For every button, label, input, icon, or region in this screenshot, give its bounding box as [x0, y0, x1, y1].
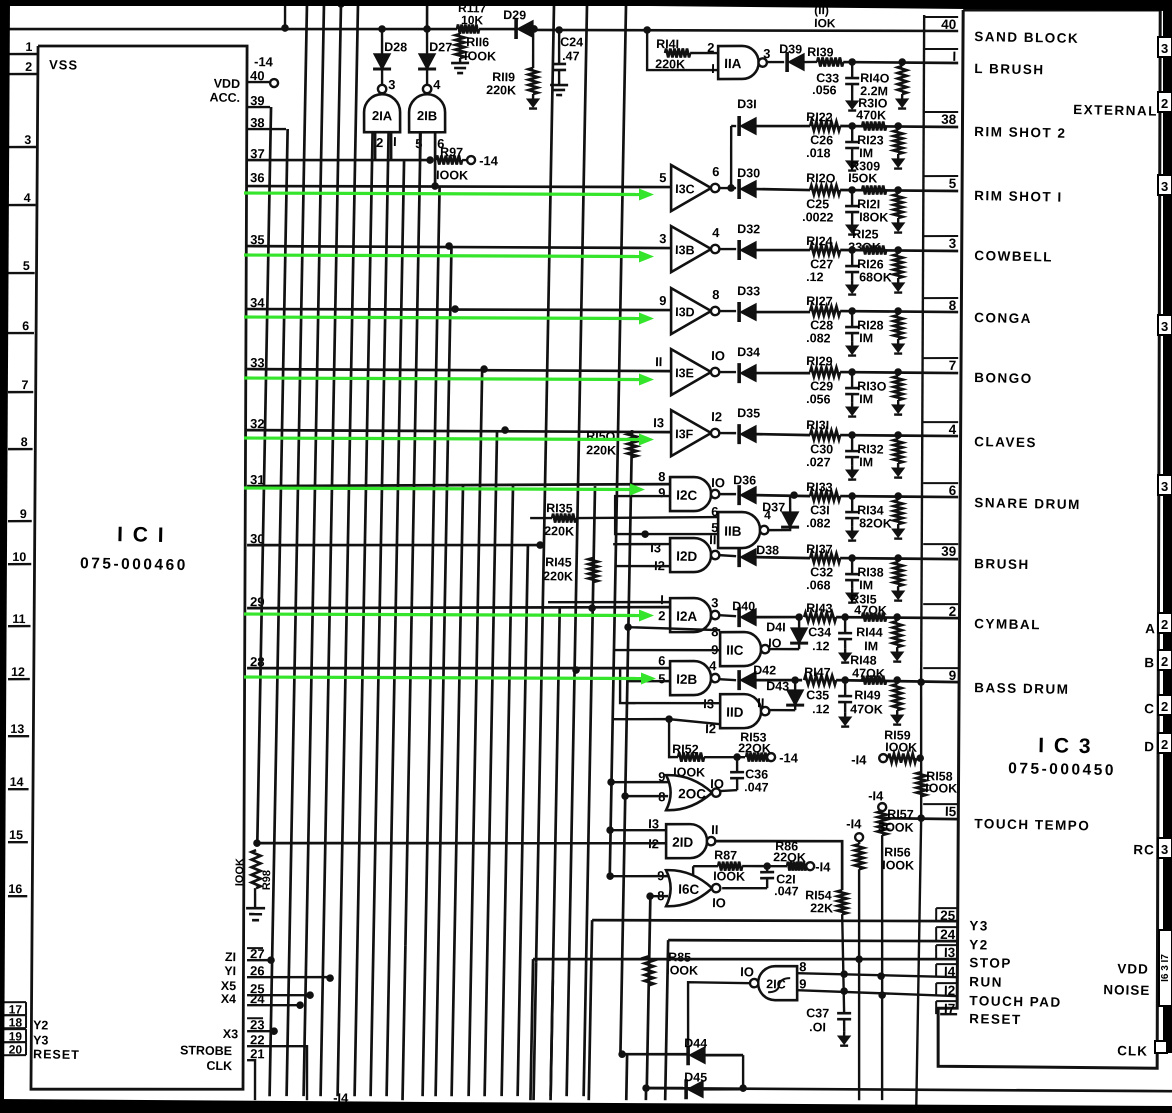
svg-text:I2D: I2D — [676, 549, 698, 564]
wire bus segment to band — [551, 980, 553, 1100]
scan border bottom band — [0, 1099, 1172, 1113]
wire R152 to R153 — [704, 756, 745, 758]
junction C35 — [841, 676, 849, 684]
svg-text:CONGA: CONGA — [974, 310, 1032, 326]
svg-text:COWBELL: COWBELL — [974, 248, 1053, 264]
wire pin rail x=923 — [912, 15, 934, 682]
junction bus top — [337, 0, 345, 8]
svg-text:3: 3 — [388, 77, 396, 92]
R309 second zigzag on rim shot 1 row — [862, 185, 886, 195]
wire 13D output to CONGA row — [756, 311, 810, 313]
nand gate 11A — [718, 46, 759, 80]
12D input wires — [613, 543, 670, 545]
resistor R153 — [746, 752, 768, 762]
wire touch tempo row — [917, 814, 925, 822]
diode D39 — [767, 61, 785, 64]
IC1 pin 18 stub — [2, 1014, 26, 1017]
IC1 pin 6 stub — [8, 331, 34, 334]
16C pin8 junction — [646, 892, 654, 900]
nand gate 11B — [717, 512, 760, 549]
svg-text:3: 3 — [1161, 319, 1168, 334]
wire bus line 19 — [551, 608, 560, 1096]
svg-text:D37: D37 — [762, 500, 785, 514]
diode D33 — [719, 310, 736, 313]
svg-text:1: 1 — [25, 40, 32, 54]
wire bus line 2 — [270, 129, 288, 1096]
svg-text:8: 8 — [712, 287, 720, 302]
wire 13E output to BONGO row — [756, 372, 810, 374]
svg-text:9: 9 — [659, 293, 667, 308]
svg-text:IM: IM — [859, 578, 873, 592]
diode D35 — [719, 432, 736, 435]
capacitor C34 — [844, 617, 847, 633]
svg-text:5: 5 — [659, 170, 667, 185]
scan border top band — [0, 0, 1172, 11]
svg-text:47OK: 47OK — [850, 702, 883, 717]
svg-text:RI39: RI39 — [807, 45, 834, 59]
wire RESET stub — [940, 1013, 957, 1016]
svg-text:IOOK: IOOK — [436, 168, 468, 183]
svg-text:I3F: I3F — [675, 427, 694, 441]
inverter 13D — [670, 288, 711, 335]
junction R149 — [893, 676, 901, 684]
svg-text:6: 6 — [22, 319, 29, 333]
svg-text:10: 10 — [12, 550, 26, 564]
resistor R140 — [901, 62, 903, 66]
R98 ground — [253, 888, 256, 908]
svg-text:.12: .12 — [812, 702, 830, 716]
nand gate 21B — [423, 85, 432, 94]
svg-text:-14: -14 — [479, 153, 499, 168]
svg-text:8: 8 — [949, 298, 957, 313]
IC1 pin 16 stub — [8, 895, 27, 898]
svg-text:D40: D40 — [732, 599, 755, 613]
IC1 pin 15 stub — [8, 841, 28, 844]
capacitor C29 — [851, 372, 854, 388]
capacitor C35 — [844, 680, 847, 696]
junction C33 — [848, 58, 856, 66]
svg-text:18: 18 — [9, 1015, 23, 1029]
svg-text:6: 6 — [712, 164, 720, 179]
svg-text:IOOK: IOOK — [666, 963, 698, 978]
diode D42 — [719, 679, 736, 680]
scan border right strip — [1163, 0, 1172, 1053]
scan border left strip — [0, 0, 10, 1100]
svg-text:RC: RC — [1133, 842, 1155, 857]
wire bus line 7 — [355, 131, 373, 1096]
svg-text:2: 2 — [707, 40, 715, 55]
svg-text:.068: .068 — [806, 578, 831, 592]
wire IC1 pin32 row to 13F input — [247, 424, 671, 438]
svg-text:I2: I2 — [944, 983, 956, 998]
21B pin6 lead — [434, 132, 436, 186]
diode D30 — [719, 187, 736, 190]
svg-text:3: 3 — [1161, 179, 1168, 194]
20C pin8 feeder — [625, 795, 668, 797]
wire bus line 13 — [452, 486, 463, 1096]
svg-text:II: II — [757, 695, 765, 710]
svg-text:RI49: RI49 — [854, 688, 881, 702]
IC IC1 075-000460 body — [19, 42, 263, 1093]
svg-text:2: 2 — [1161, 96, 1168, 111]
svg-text:3OOK: 3OOK — [878, 820, 914, 835]
svg-text:I3E: I3E — [675, 366, 694, 380]
capacitor C25 — [851, 190, 854, 206]
resistor RI38 shunt — [897, 558, 900, 562]
svg-text:Y2: Y2 — [33, 1018, 49, 1032]
diode D37 vertical — [768, 528, 790, 531]
svg-text:R97: R97 — [440, 145, 463, 159]
svg-text:SAND BLOCK: SAND BLOCK — [974, 29, 1079, 46]
diode D31 branch — [730, 126, 732, 188]
IC1 pin21 CLK wire — [246, 1060, 255, 1100]
svg-text:X3: X3 — [223, 1027, 239, 1041]
svg-text:RI35: RI35 — [546, 501, 573, 515]
IC3 pin 25 Y3 — [936, 907, 957, 910]
or gate 16C — [665, 870, 712, 907]
resistor R158 on rail — [916, 772, 926, 796]
wire row y=496 segments — [840, 495, 958, 498]
resistor R139 zigzag — [817, 57, 843, 67]
svg-text:.056: .056 — [806, 392, 831, 406]
svg-text:VDD: VDD — [1117, 961, 1149, 977]
svg-text:D29: D29 — [503, 8, 526, 22]
diode D28 — [380, 29, 383, 54]
wire IC1 pin35 row to 13B input — [247, 240, 671, 254]
IC1 pin24 X4 wire — [247, 1004, 300, 1006]
IC1 pin 1 stub — [8, 53, 37, 54]
wire pin30 row — [247, 540, 544, 551]
IC1 pin 5 stub — [8, 271, 35, 274]
svg-text:A: A — [1145, 621, 1155, 636]
IC3 pin 24 Y2 — [936, 926, 957, 929]
IC3 pin 9 BASS DRUM — [923, 667, 958, 668]
IC3 pin 7 BONGO — [923, 357, 958, 358]
diode D40 — [719, 615, 736, 616]
svg-text:I2: I2 — [711, 409, 722, 424]
svg-text:.082: .082 — [806, 331, 831, 345]
IC1 pin 9 stub — [8, 519, 32, 522]
diode D41 vertical — [769, 649, 799, 650]
svg-text:I3: I3 — [650, 540, 661, 555]
IC3 pin I L BRUSH — [923, 48, 958, 49]
resistor R149 — [896, 680, 899, 684]
svg-text:NOISE: NOISE — [1103, 982, 1150, 998]
C24 ground — [558, 80, 561, 85]
svg-text:D45: D45 — [684, 1070, 707, 1084]
svg-text:3: 3 — [1161, 479, 1168, 494]
wire 12A output to CYMBAL row — [756, 616, 802, 618]
IC3 pin I7 RESET — [936, 1000, 957, 1003]
IC1 pin 20 stub — [2, 1041, 26, 1044]
capacitor C33 — [851, 62, 854, 78]
IC3 pin 5 RIM SHOT I — [923, 175, 958, 176]
diode D43 vertical — [769, 708, 795, 711]
R87 left feeder — [692, 866, 695, 876]
svg-text:22OK: 22OK — [773, 850, 806, 865]
IC1 pin 4 stub — [8, 204, 36, 205]
IC3 pin I3 STOP — [936, 944, 957, 947]
svg-text:RI43: RI43 — [806, 601, 833, 615]
RI23 ground — [897, 154, 900, 159]
resistor R144 — [896, 617, 899, 621]
svg-text:B: B — [1144, 655, 1154, 670]
junction cap C25 — [848, 186, 856, 194]
svg-text:C34: C34 — [808, 625, 831, 639]
21B pin5 lead — [420, 132, 421, 160]
IC3 pin 38 RIM SHOT 2 — [923, 111, 958, 112]
svg-text:L BRUSH: L BRUSH — [974, 61, 1045, 77]
svg-text:I3D: I3D — [675, 305, 695, 319]
svg-text:4: 4 — [949, 422, 957, 437]
svg-text:075-000450: 075-000450 — [1008, 760, 1116, 779]
IC1 pin25 X5 wire — [247, 994, 310, 996]
wire bus line 9 — [371, 131, 389, 1096]
svg-text:2: 2 — [1161, 737, 1168, 752]
capacitor C30 — [851, 435, 854, 451]
IC1 pin box separators — [247, 947, 263, 950]
resistor RI33 series zigzag — [810, 491, 840, 501]
resistor R85 on touch line — [644, 956, 654, 985]
svg-text:.0022: .0022 — [802, 210, 834, 225]
svg-text:220K: 220K — [486, 83, 516, 98]
wire 12C output to SNARE DRUM row — [756, 495, 810, 496]
IC3 right edge pin tab 2 y=661 — [1158, 650, 1172, 670]
svg-text:C: C — [1144, 701, 1154, 716]
resistor RI3O shunt — [897, 372, 900, 376]
capacitor C26 — [851, 126, 854, 142]
svg-text:I4: I4 — [944, 964, 956, 979]
wire row y=372 segments — [840, 371, 958, 374]
svg-text:I: I — [952, 49, 956, 64]
C37 ground — [843, 1031, 845, 1036]
junction R97 — [426, 156, 434, 164]
IC1 pin27 Z1 wire — [247, 958, 271, 961]
wire C21 to 16C output — [722, 887, 767, 889]
svg-text:TOUCH PAD: TOUCH PAD — [969, 993, 1062, 1010]
wire row y=190 segments — [840, 189, 958, 192]
svg-text:220K: 220K — [586, 443, 616, 458]
nand gate 12D — [669, 538, 711, 573]
svg-text:15: 15 — [9, 828, 23, 842]
svg-text:2OC: 2OC — [678, 786, 706, 802]
svg-text:D39: D39 — [779, 42, 802, 56]
diode D45 and wire — [646, 1087, 683, 1088]
svg-text:-14: -14 — [254, 54, 274, 69]
IC1 pin 10 stub — [8, 562, 31, 565]
IC3 right edge pin tab 3 y=849 — [1158, 838, 1172, 858]
IC1 pin40 VDD wire to -14 — [247, 80, 270, 83]
svg-text:CLK: CLK — [206, 1059, 232, 1073]
junction cap C26 — [848, 122, 856, 130]
diode D44 and wire — [621, 1053, 688, 1055]
nand gate 11D — [720, 694, 762, 729]
resistor R98 pulldown — [253, 839, 261, 847]
wire highlighted-green y=255 — [244, 255, 641, 257]
C26 ground — [851, 156, 854, 161]
diode D29 — [517, 20, 534, 37]
wire cymbal row — [836, 616, 958, 620]
svg-text:RI24: RI24 — [806, 234, 833, 248]
svg-text:I C 3: I C 3 — [1038, 734, 1093, 758]
svg-text:D43: D43 — [766, 679, 789, 693]
RI38 ground — [897, 586, 900, 591]
svg-text:12: 12 — [11, 665, 25, 679]
svg-text:220K: 220K — [544, 524, 574, 539]
wire bus line 23 — [620, 430, 632, 1054]
IC1 pin 13 stub — [8, 735, 29, 738]
svg-text:RI33: RI33 — [806, 480, 833, 494]
svg-text:R87: R87 — [714, 848, 737, 862]
IC1 pin 19 stub — [2, 1028, 26, 1031]
svg-text:IO: IO — [740, 964, 754, 979]
svg-text:BRUSH: BRUSH — [974, 556, 1030, 572]
wire bus line 8 — [387, 161, 404, 1096]
svg-text:RII6: RII6 — [466, 35, 489, 49]
resistor R86 — [765, 865, 787, 868]
resistor R145 on bus — [588, 558, 598, 582]
svg-text:20: 20 — [9, 1042, 23, 1056]
or gate 20C — [665, 775, 712, 811]
svg-text:4: 4 — [24, 191, 31, 205]
resistor RI22 series zigzag — [810, 121, 840, 131]
R148 second zigzag on bass row — [862, 675, 886, 685]
svg-text:D30: D30 — [737, 166, 760, 180]
wire bus line 18 — [536, 4, 554, 962]
wire IC1 pin29 row to 12A input — [247, 599, 670, 616]
svg-text:8: 8 — [658, 469, 666, 484]
wire bus line 1 — [257, 107, 271, 845]
svg-text:D: D — [1144, 739, 1154, 754]
IC3 pin 39 BRUSH — [923, 543, 958, 544]
svg-text:D44: D44 — [684, 1036, 707, 1050]
diode D32 — [719, 248, 736, 251]
wire bus line 16 — [502, 486, 513, 1096]
svg-text:3: 3 — [24, 133, 31, 147]
IC1 pin22 STROBE wire — [246, 1045, 308, 1100]
svg-text:I3C: I3C — [675, 182, 695, 196]
svg-text:RI5O: RI5O — [586, 429, 616, 444]
svg-text:IM: IM — [859, 392, 873, 406]
wire D31 to RIM SHOT 2 row — [756, 125, 810, 127]
12A input 1 wire — [548, 600, 670, 605]
svg-text:3: 3 — [659, 231, 667, 246]
21C output wire to touch pad net — [687, 982, 750, 1046]
capacitor C28 — [851, 311, 854, 327]
svg-text:2: 2 — [376, 135, 384, 150]
C25 ground — [851, 220, 854, 225]
svg-text:IOOK: IOOK — [234, 858, 247, 886]
wire highlighted-green y=378 — [244, 378, 641, 380]
junction cap C30 — [848, 431, 856, 439]
capacitor C3I — [851, 496, 854, 512]
svg-text:CYMBAL: CYMBAL — [974, 616, 1041, 632]
svg-text:I6 3 I7: I6 3 I7 — [1160, 954, 1171, 982]
wire bus segment to band — [625, 1054, 629, 1100]
wire row y=250 segments — [840, 249, 958, 252]
R119 ground — [532, 94, 534, 99]
svg-text:RI2O: RI2O — [806, 171, 836, 186]
svg-text:IM: IM — [859, 146, 873, 160]
resistor R143 series zigzag — [804, 612, 836, 622]
wire 21D output to R154 — [714, 839, 843, 890]
wire bus line 14 — [469, 369, 483, 1096]
IC1 pin 7 stub — [8, 390, 33, 393]
svg-text:VDD: VDD — [214, 77, 241, 91]
diode D34 — [719, 371, 736, 374]
wire bus line 3 — [287, 4, 307, 1096]
junction cap C29 — [848, 368, 856, 376]
resistor R156 — [858, 841, 861, 844]
wire bus line 21 — [584, 486, 595, 1096]
svg-text:RI3I: RI3I — [806, 418, 829, 432]
svg-text:.056: .056 — [812, 83, 837, 97]
svg-text:EXTERNAL: EXTERNAL — [1073, 102, 1158, 119]
svg-text:.027: .027 — [806, 455, 831, 469]
wire bottom long y=1089 — [646, 1081, 1172, 1098]
IC3 right edge pin tab 2 y=624 — [1158, 613, 1172, 633]
svg-text:RI52: RI52 — [672, 742, 699, 756]
svg-text:IO: IO — [710, 776, 724, 791]
IC1 pin 14 stub — [8, 788, 29, 791]
resistor RI34 shunt — [897, 496, 899, 500]
svg-text:IM: IM — [859, 455, 873, 469]
IC1 pin 17 stub — [2, 1001, 26, 1004]
svg-text:13: 13 — [10, 722, 24, 736]
IC1 pin26 Y1 wire — [247, 976, 330, 979]
svg-text:RESET: RESET — [33, 1047, 80, 1062]
svg-text:22OK: 22OK — [738, 741, 771, 756]
wire top rail A — [8, 0, 428, 29]
nand gate 12C — [669, 477, 711, 512]
svg-text:RI27: RI27 — [806, 294, 833, 308]
svg-text:IOOK: IOOK — [713, 869, 745, 884]
svg-text:II: II — [709, 532, 717, 547]
svg-text:2: 2 — [949, 604, 957, 619]
wire R98 row to 21D pin12 — [256, 836, 666, 851]
svg-text:I2C: I2C — [676, 488, 698, 503]
svg-text:CLAVES: CLAVES — [974, 434, 1037, 450]
svg-text:D28: D28 — [384, 40, 407, 54]
svg-text:I3B: I3B — [675, 243, 695, 257]
IC1 pin 3 stub — [8, 146, 36, 147]
svg-text:3: 3 — [711, 595, 719, 610]
junction C34 — [841, 613, 849, 621]
svg-text:9: 9 — [658, 485, 666, 500]
svg-text:BONGO: BONGO — [974, 370, 1033, 386]
svg-text:R98: R98 — [261, 870, 273, 890]
resistor R119 — [532, 30, 533, 68]
svg-text:-I4: -I4 — [851, 752, 867, 767]
inverter 13C — [670, 165, 711, 212]
svg-text:D42: D42 — [753, 663, 776, 677]
IC3 pin I2 TOUCH PAD — [936, 982, 957, 985]
wire bus line 17 — [518, 545, 528, 1096]
IC1 pin23 X3 wire — [247, 1031, 274, 1032]
inverter 13B — [670, 226, 711, 273]
svg-text:C24: C24 — [560, 35, 583, 49]
wire top rail B to IC3 pin 40 SAND BLOCK — [8, 21, 457, 38]
svg-text:2IA: 2IA — [372, 108, 393, 123]
svg-text:D27: D27 — [429, 40, 452, 54]
svg-text:I5: I5 — [945, 804, 957, 819]
svg-text:RI45: RI45 — [545, 555, 572, 569]
svg-text:470K: 470K — [856, 108, 886, 123]
IC3 clk stub tab — [1155, 1041, 1167, 1053]
svg-text:220K: 220K — [543, 569, 573, 584]
resistor RI29 series zigzag — [810, 367, 840, 377]
junction cap C3I — [848, 492, 856, 500]
